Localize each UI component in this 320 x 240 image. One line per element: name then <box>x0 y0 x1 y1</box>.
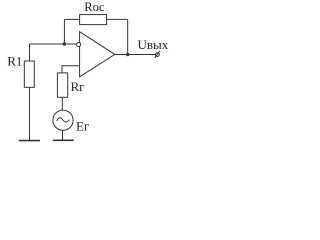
node A junction dot <box>63 42 66 45</box>
resistor Roc <box>80 15 107 25</box>
resistor Rg <box>57 73 67 97</box>
op-amp U1 triangle <box>80 32 115 77</box>
source Eg sine symbol <box>57 118 69 122</box>
wire inverting input horizontal <box>30 43 77 45</box>
wire Roc right <box>107 18 128 20</box>
ground (Eg) <box>53 139 74 141</box>
output terminal slash <box>155 51 160 58</box>
svg-text:R1: R1 <box>7 54 22 69</box>
resistor R1 <box>24 61 34 87</box>
wire non-inverting input <box>62 66 80 73</box>
ground (R1) <box>19 140 40 142</box>
svg-text:Ег: Ег <box>76 118 89 133</box>
wire output <box>115 54 156 56</box>
wire R1 top drop <box>29 44 31 61</box>
svg-text:Roc: Roc <box>84 0 105 14</box>
node B junction dot <box>126 53 129 56</box>
wire Roc left <box>64 18 79 20</box>
source Eg circle <box>53 110 73 130</box>
wire R1 bottom <box>29 87 31 140</box>
svg-text:Uвых: Uвых <box>138 37 169 52</box>
wire feedback left vertical <box>63 19 65 44</box>
wire feedback right vertical <box>127 19 129 54</box>
output terminal <box>156 53 160 57</box>
svg-text:Rг: Rг <box>71 79 85 94</box>
wire source to ground <box>62 130 64 140</box>
op-amp inverting input bubble <box>77 43 81 47</box>
wire Rg to source <box>61 97 63 110</box>
